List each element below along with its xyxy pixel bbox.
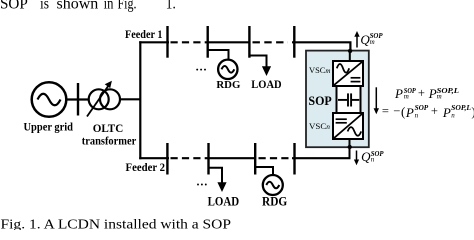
feeder 2 bus tick 4 [293, 143, 295, 175]
converter VSCm box [333, 61, 363, 86]
source RDG 2: circle with sine [263, 175, 283, 195]
junction dot top [348, 49, 352, 53]
svg-text:VSCm: VSCm [309, 66, 331, 75]
svg-text:+: + [431, 104, 438, 118]
feeder 2 wire: solid segment from main bus [139, 157, 169, 159]
svg-text:n: n [451, 112, 455, 120]
junction dot bottom [348, 145, 352, 149]
wire: RDG 1 elbow from tick 2 [208, 50, 229, 60]
label: Qn^SOP [361, 149, 384, 164]
svg-text:m: m [370, 38, 375, 46]
svg-text:RDG: RDG [216, 79, 240, 91]
equation line 2: = -(Pn^SOP + Pn^SOP,L) [382, 104, 474, 120]
feeder 1 bus tick 4 [293, 26, 295, 58]
svg-text:m: m [437, 93, 442, 101]
svg-text:Feeder 1: Feeder 1 [125, 29, 163, 41]
svg-text:SOP: SOP [0, 0, 28, 12]
arrow up: reactive power Qm [354, 31, 359, 48]
svg-text:shown: shown [57, 0, 99, 12]
svg-text:SOP: SOP [308, 93, 331, 108]
svg-text:LOAD: LOAD [208, 195, 240, 209]
wire: transformer to main bus [120, 98, 141, 100]
svg-text:transformer: transformer [82, 134, 137, 148]
svg-text:n: n [415, 112, 419, 120]
DC link capacitor [338, 93, 359, 106]
load arrow 2 head [217, 182, 226, 192]
ellipsis dots feeder 1 [196, 69, 206, 71]
svg-text:1.: 1. [166, 0, 176, 12]
wire: SOP bottom feed to feeder 2 [349, 139, 351, 158]
svg-text:+: + [418, 86, 425, 100]
wire: SOP top feed (vertical into box) [349, 51, 351, 62]
transformer T1: OLTC two circles with arrow [87, 81, 120, 117]
svg-text:is: is [40, 0, 49, 12]
feeder 2 wire: dashed segment 1 [171, 157, 207, 159]
svg-text:(: ( [401, 104, 405, 119]
svg-text:m: m [404, 93, 409, 101]
converter VSCn box [333, 113, 363, 139]
wire: source to transformer [66, 98, 89, 100]
SOP enclosure box [306, 51, 369, 148]
svg-text:RDG: RDG [262, 195, 287, 209]
load arrow 1 head [262, 66, 271, 76]
svg-text:−: − [393, 104, 400, 118]
arrow down: reactive power Qn [354, 151, 359, 166]
source RDG 1: circle with sine [218, 60, 237, 79]
feeder 2 bus tick 1 [166, 143, 168, 175]
svg-text:Fig.: Fig. [118, 0, 137, 12]
svg-text:VSCn: VSCn [309, 122, 331, 131]
svg-text:Fig. 1. A LCDN installed with: Fig. 1. A LCDN installed with a SOP [1, 216, 232, 230]
paragraph text top: "SOP is shown in Fig. 1." [0, 0, 176, 12]
svg-text:LOAD: LOAD [251, 78, 281, 91]
main substation bus (vertical) [139, 41, 141, 159]
wire: RDG 2 elbow from tick 3 [255, 167, 273, 175]
feeder 1 bus tick 2 [206, 26, 208, 58]
equation line 1: Pm^SOP + Pm^SOP,L [394, 86, 460, 101]
feeder 2 bus tick 2 [207, 143, 209, 175]
label: Qm^SOP [360, 32, 383, 47]
wire: LOAD 2 elbow from tick 2 [209, 168, 223, 183]
svg-text:n: n [371, 155, 375, 163]
ellipsis dots feeder 2 [197, 184, 207, 186]
svg-text:=: = [382, 104, 389, 118]
arrow down: active power equality [374, 87, 379, 114]
wire: LOAD 1 elbow from tick 3 [249, 56, 266, 67]
feeder 1 bus tick 1 [166, 26, 168, 58]
feeder 2 wire: solid segment 3 to SOP drop [292, 157, 351, 159]
feeder 1 wire: dashed segment 2 [253, 41, 289, 43]
bus tick between source and transformer [77, 83, 79, 116]
source G1: upper grid AC source circle [32, 82, 67, 117]
svg-text:in: in [104, 0, 114, 12]
svg-text:P: P [428, 86, 437, 101]
svg-text:Feeder 2: Feeder 2 [126, 162, 166, 174]
svg-text:Q: Q [361, 149, 371, 164]
feeder 1 wire: solid segment 2 [207, 41, 251, 43]
feeder 1 wire: solid segment 3 with corner down to SOP [292, 42, 350, 61]
feeder 2 wire: dashed segment 2 [259, 157, 293, 159]
feeder 1 bus tick 3 [248, 26, 250, 58]
feeder 2 bus tick 3 [254, 143, 256, 175]
feeder 2 wire: solid segment 2 [206, 157, 256, 159]
svg-text:P: P [394, 86, 403, 101]
svg-text:Upper grid: Upper grid [24, 122, 74, 134]
DC link box [337, 86, 361, 113]
svg-text:P: P [405, 105, 414, 120]
feeder 1 wire: dashed segment 1 [171, 41, 207, 43]
feeder 1 wire: solid segment from main bus [139, 41, 169, 43]
svg-text:P: P [442, 105, 451, 120]
